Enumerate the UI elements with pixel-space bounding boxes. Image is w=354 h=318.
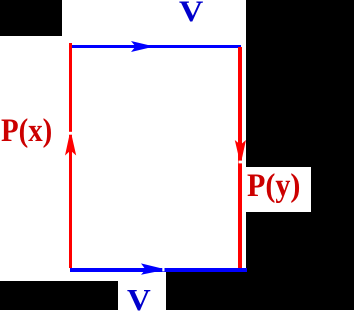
black region bottom middle/right bbox=[166, 272, 246, 310]
arrow left (up-pointing) bbox=[65, 135, 76, 156]
gap in right red line below arrow tip bbox=[239, 161, 243, 164]
wire: right red line P(y) bbox=[238, 47, 242, 268]
label P(y) bbox=[247, 168, 300, 205]
label V top bbox=[179, 0, 203, 29]
arrow top (right-pointing) bbox=[131, 41, 150, 52]
wire: bottom blue line V bbox=[70, 268, 247, 272]
gap in left red line above arrow tip bbox=[69, 132, 73, 135]
black corner region top-left bbox=[0, 0, 62, 36]
wire: top blue line V bbox=[70, 45, 241, 49]
arrow bottom (right-pointing) bbox=[141, 263, 162, 274]
arrow right (down-pointing) bbox=[235, 140, 246, 160]
gap in bottom blue line after arrow tip bbox=[162, 268, 164, 272]
white patch for P(y) label bbox=[243, 167, 311, 212]
black region right side bbox=[246, 0, 354, 310]
black corner region bottom-left bbox=[0, 281, 118, 310]
label V bottom bbox=[127, 282, 151, 318]
label P(x) bbox=[1, 113, 52, 150]
wire: left red line P(x) bbox=[69, 43, 72, 268]
